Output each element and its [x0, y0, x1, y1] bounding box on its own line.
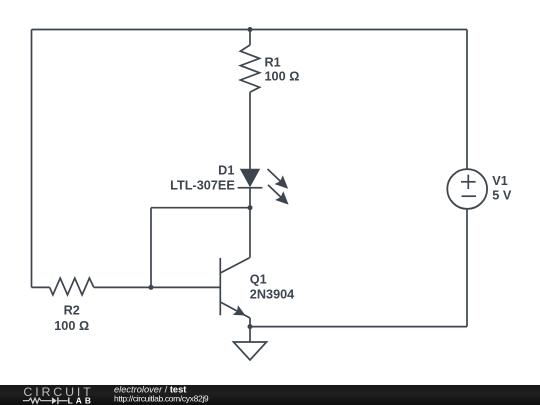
svg-text:LTL-307EE: LTL-307EE	[170, 178, 235, 192]
svg-text:R1: R1	[265, 55, 281, 69]
wire bottom rail to V1	[250, 326, 467, 328]
svg-text:http://circuitlab.com/cyx82j9: http://circuitlab.com/cyx82j9	[114, 393, 209, 403]
wire V1 bottom lead	[466, 209, 468, 327]
LED D1 triangle	[240, 169, 260, 188]
V1 plus sign	[461, 181, 476, 183]
resistor R1	[240, 45, 259, 92]
logo diode symbol	[52, 397, 57, 404]
junction dot base net	[149, 285, 154, 290]
voltage source V1 circle	[447, 169, 487, 209]
wire R2 right lead to Q1 base	[94, 286, 221, 288]
wire ground stem	[249, 327, 251, 342]
V1 minus sign	[462, 195, 476, 197]
svg-text:2N3904: 2N3904	[250, 287, 294, 301]
wire V1 top lead	[466, 30, 468, 170]
svg-text:100 Ω: 100 Ω	[265, 70, 300, 84]
junction dot emitter/ground node	[248, 324, 253, 329]
transistor Q1 emitter arrowhead	[233, 305, 246, 315]
wire across to LED cathode node	[151, 207, 250, 209]
wire left rail down to R2	[31, 30, 33, 288]
transistor Q1 emitter diagonal	[220, 302, 250, 318]
transistor Q1 base bar	[219, 258, 221, 315]
ground symbol	[234, 342, 267, 360]
svg-text:LAB: LAB	[68, 395, 94, 405]
logo resistor zigzag	[23, 398, 52, 403]
svg-text:V1: V1	[492, 174, 508, 188]
svg-text:Q1: Q1	[250, 272, 267, 286]
wire node B riser from R2 net up	[150, 208, 152, 288]
wire R1 top stub	[249, 30, 251, 46]
wire R2 left lead	[32, 286, 50, 288]
wire emitter stub to bottom node	[249, 318, 251, 327]
transistor Q1 collector diagonal	[220, 258, 249, 273]
LED D1 arrow 1 head	[275, 175, 289, 188]
LED D1 light arrow 2 shaft	[268, 185, 281, 197]
svg-text:5 V: 5 V	[492, 189, 512, 203]
wire LED cathode down to Q1 collector	[249, 188, 251, 258]
LED D1 cathode bar	[238, 187, 263, 189]
resistor R2	[50, 278, 94, 295]
svg-text:D1: D1	[218, 164, 234, 178]
wire R1 to LED anode	[249, 92, 251, 169]
junction dot LED cathode node	[248, 205, 253, 210]
LED D1 arrow 2 head	[275, 191, 289, 204]
junction dot node top (R1/top rail)	[248, 27, 253, 32]
LED D1 light arrow 1 shaft	[268, 169, 281, 181]
logo line to LAB	[59, 400, 68, 401]
wire top rail from left corner to V1	[32, 29, 468, 31]
svg-text:R2: R2	[64, 304, 80, 318]
footer bar	[0, 385, 540, 405]
svg-text:100 Ω: 100 Ω	[54, 319, 89, 333]
